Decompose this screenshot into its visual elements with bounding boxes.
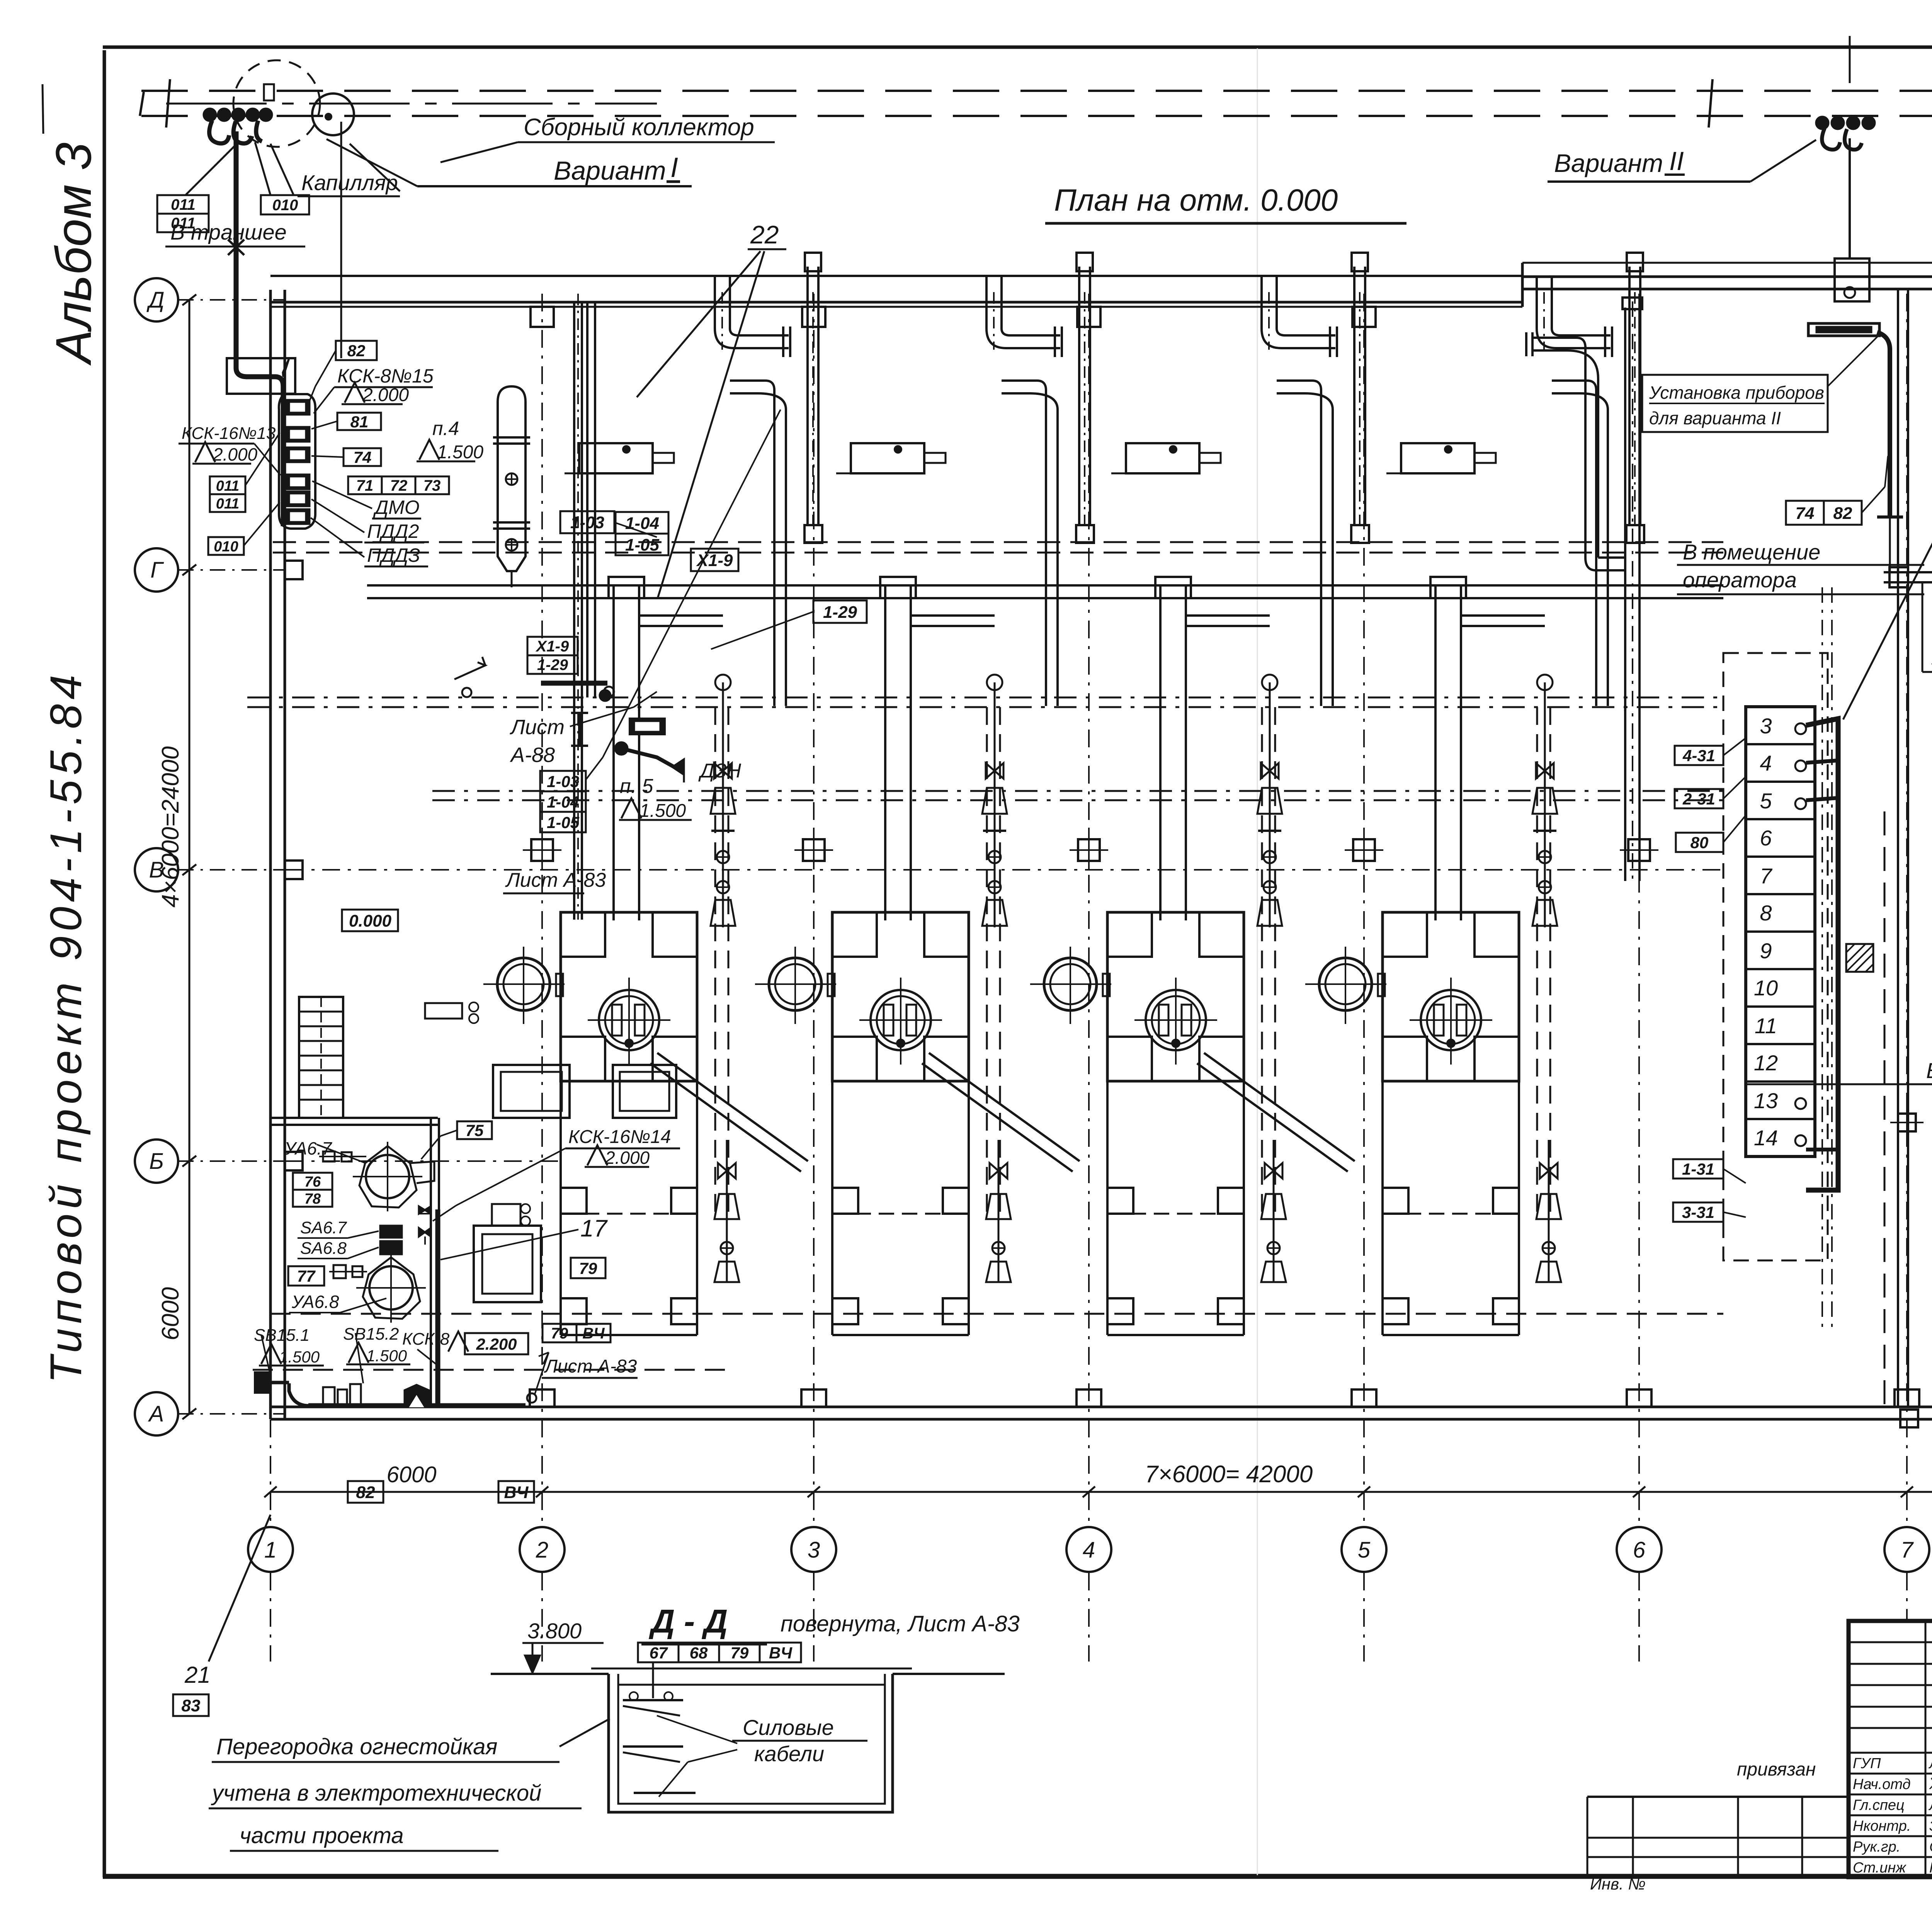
svg-text:1-04: 1-04 [547,793,579,811]
svg-text:3.800: 3.800 [527,1619,582,1643]
svg-text:74: 74 [1796,504,1815,523]
collector thin drop [340,122,342,358]
tall vessel [498,386,526,571]
svg-text:78: 78 [304,1191,321,1207]
arrow up-left p5 [454,657,485,679]
stairs annex [1922,582,1923,672]
sheet border left [103,50,106,1877]
svg-text:Лист: Лист [510,716,565,739]
svg-text:3: 3 [1760,714,1772,738]
row axis circle Г [135,548,178,592]
label boxes X1-9 1-29 [527,637,578,655]
label box 0.000 [342,910,398,931]
trench X mark [228,240,244,255]
tb sig hline [1849,1773,1932,1775]
label box 010 [208,537,244,555]
row axis circle Б [135,1139,178,1183]
arrow 3.800 dd [532,1643,534,1673]
svg-text:КСК-16№14: КСК-16№14 [568,1127,671,1147]
tb grid hline [1849,1684,1932,1686]
svg-text:74: 74 [354,448,372,466]
label box 010 top [261,195,309,214]
column axis line 5 [1363,294,1365,1526]
leader sborny [440,142,518,162]
collector center line [166,103,657,105]
svg-text:КСК-8№15: КСК-8№15 [337,365,434,387]
svg-text:Д - Д: Д - Д [648,1603,728,1640]
svg-text:Сборный коллектор: Сборный коллектор [524,114,754,141]
column axis circle 3 [791,1527,836,1572]
DD hook 1 [623,1699,683,1701]
variant2 black bar [1808,323,1879,336]
variant1 instrument circle [312,94,354,135]
bottom wall pilaster [530,1389,554,1407]
leader ksk815 [314,387,334,413]
svg-text:для варианта II: для варианта II [1649,408,1781,428]
leader 011 boxes [185,141,240,195]
label box 74 a [344,448,381,466]
left dim tick Б [182,1156,196,1167]
column axis line 7 [1906,294,1908,1526]
bay0 pipe pair [573,302,575,920]
row axis line В long [286,869,1723,871]
row axis line А [178,1413,286,1415]
label box 80 [1676,833,1723,852]
svg-text:1-05: 1-05 [625,536,660,554]
tb sig vline [1925,1753,1927,1877]
collector dashed line 2 [141,115,1932,117]
bottom wall pilaster [1352,1389,1376,1407]
svg-text:1.500: 1.500 [279,1348,320,1366]
leader list a88 [570,707,634,726]
stair [299,997,343,1118]
label 2.200 [448,1332,468,1352]
label 2.000 b [195,442,215,462]
svg-text:9: 9 [1760,939,1772,963]
tb sig hline [1849,1835,1932,1837]
leader dmo [312,481,372,509]
compressor unit 1 assembly [623,446,630,453]
black device p5 [630,719,665,734]
svg-text:Перегородка огнестойкая: Перегородка огнестойкая [216,1734,498,1759]
bottom dim tick [264,1486,277,1497]
lower dashed line a [270,1313,1723,1315]
compressor unit 2 assembly [895,446,901,453]
row axis circle Д [135,278,178,321]
left wall pilaster [285,861,303,879]
leader ua67 [317,1145,366,1163]
leader ksk16 [254,444,281,475]
tb grid hline [1849,1752,1932,1754]
col6 riser [1624,308,1626,881]
svg-text:68: 68 [690,1644,708,1662]
row axis line Б [178,1160,286,1162]
svg-text:ГУП: ГУП [1853,1755,1881,1772]
label box 1-29 [813,600,867,623]
svg-text:Х1-9: Х1-9 [536,638,569,655]
row axis line Г [178,569,286,571]
svg-text:73: 73 [423,477,441,494]
svg-text:Д: Д [146,287,165,313]
svg-text:82: 82 [347,342,366,360]
svg-text:4×6000=24000: 4×6000=24000 [157,746,184,907]
edge mark top-left [43,84,43,134]
svg-text:1-29: 1-29 [823,603,857,622]
column junction box [531,839,553,861]
column axis line 4 [1088,294,1090,1526]
panel dashed box [1723,653,1828,1260]
svg-text:4: 4 [1760,751,1772,775]
svg-text:14: 14 [1754,1126,1778,1150]
svg-text:Х1-9: Х1-9 [696,551,733,570]
label box 82 a [336,341,377,360]
svg-text:76: 76 [304,1174,321,1190]
column axis circle 6 [1617,1527,1662,1572]
variant2 heavy drop [1877,332,1890,517]
variant1 cable bundle dots [204,109,216,121]
svg-text:Б: Б [149,1149,164,1174]
leader stack 103 [586,757,603,780]
svg-text:1-29: 1-29 [537,656,568,673]
column axis line 6 [1638,294,1640,1526]
apparatus square B [493,1065,570,1118]
svg-text:2.000: 2.000 [605,1148,650,1168]
svg-text:Ст.инж: Ст.инж [1853,1860,1906,1876]
instrument stack outline [279,394,315,529]
svg-text:Рук.гр.: Рук.гр. [1853,1839,1900,1855]
row axis line Д [178,299,286,301]
bottom dim tick [536,1486,548,1497]
heavy dots p5 [615,742,628,755]
upper dashed band [273,541,1723,543]
collector tick mid [1709,79,1713,128]
label 1500 p5 [621,798,641,818]
bottom dim tick [1358,1486,1370,1497]
leader 010 [244,502,280,546]
column axis line 1 [270,294,271,1526]
lower dashed band [432,790,1723,792]
tb grid hline [1849,1706,1932,1708]
apparatus square A [474,1226,541,1302]
label box 83 [173,1694,209,1716]
valve sym p5 [672,759,684,775]
svg-text:11: 11 [1755,1014,1777,1038]
svg-text:5: 5 [1358,1537,1371,1563]
svg-text:10: 10 [1754,976,1778,1000]
svg-text:Нконтр.: Нконтр. [1853,1818,1911,1834]
svg-text:I: I [670,152,678,183]
svg-text:Вариант: Вариант [1554,149,1663,177]
cable device black [405,1385,429,1406]
svg-text:КСК-8: КСК-8 [402,1330,450,1349]
leader ua68 [340,1298,386,1313]
apparatus square C [613,1065,676,1118]
svg-text:67: 67 [650,1644,668,1662]
svg-text:22: 22 [750,220,779,249]
label 22 leaders [637,251,760,397]
svg-text:ВЧ: ВЧ [769,1644,793,1662]
boxes 67 68 79 BЧ [638,1643,679,1662]
svg-text:кабели: кабели [754,1742,824,1766]
collector dashed line 1 [141,90,1932,92]
label box 79 [571,1258,605,1278]
DD hook 3 [634,1792,696,1794]
label 2000 c [587,1145,607,1165]
svg-text:Седых: Седых [1929,1839,1932,1855]
leader sb152 [355,1333,363,1383]
row axis circle А [135,1392,178,1435]
svg-text:7: 7 [1760,864,1772,888]
label box 1-31 [1673,1159,1723,1179]
svg-text:п. 5: п. 5 [620,775,654,798]
hatched shaft [1846,944,1873,972]
big leader diagonal [1843,415,1932,719]
svg-text:В помещение: В помещение [1683,540,1820,564]
svg-text:части проекта: части проекта [240,1823,404,1848]
left dim tick В [182,864,196,875]
leader ksk1614 [456,1148,565,1206]
svg-text:13: 13 [1754,1088,1778,1113]
label boxes 1-04 1-05 [616,512,668,534]
panel strip cells 3-14 [1746,707,1815,1156]
label boxes 79 ВЧ [543,1324,577,1342]
top wall step [1521,263,1524,307]
cable fittings chain [289,1383,308,1406]
svg-text:II: II [1669,146,1684,176]
leader ksk8b [417,1349,436,1364]
svg-text:повернута, Лист А-83: повернута, Лист А-83 [781,1611,1020,1636]
apparatus small top [492,1204,520,1226]
row axis line В [178,869,286,871]
label boxes 011 top [157,195,209,214]
cable channel lines [1821,587,1823,1329]
leader 1-03 [614,522,657,537]
left wall pilaster [285,1152,303,1170]
svg-text:2: 2 [536,1537,548,1563]
label box 75 [457,1121,492,1139]
pump room valve black 1 [419,1206,431,1214]
DD trench [609,1674,893,1812]
label boxes 1-03 1-04 1-05 [540,771,586,791]
svg-text:6000: 6000 [386,1462,436,1487]
top wall main hall [270,275,1522,277]
svg-text:6: 6 [1760,826,1772,850]
tb sig hline [1849,1856,1932,1858]
bottom wall pilaster [1895,1389,1919,1407]
left dim tick А [182,1408,196,1419]
leader 4-31 [1723,738,1746,755]
leader 82a [315,350,336,386]
svg-text:0.000: 0.000 [349,912,392,930]
pipe rack band [367,584,1723,587]
svg-text:1-03: 1-03 [547,772,579,791]
corridor walls [1897,289,1899,1407]
svg-text:УА6.8: УА6.8 [291,1292,339,1312]
leader sb151 [261,1335,270,1376]
svg-text:В канале: В канале [1926,1058,1932,1083]
column axis circle 5 [1342,1527,1386,1572]
pump room right wall [430,1118,432,1407]
svg-text:Типовой проект 904-1-55.84: Типовой проект 904-1-55.84 [41,670,91,1383]
svg-text:Лист А-83: Лист А-83 [505,869,606,891]
svg-text:Лист А-83: Лист А-83 [544,1356,637,1377]
pump room black module 2 [380,1241,402,1254]
leader 81 [311,421,337,429]
left dim tick Г [182,565,196,575]
leader silovye 2 [688,1750,737,1762]
bottom wall pilaster [801,1389,826,1407]
leader 010 box [270,144,294,195]
tb grid hline [1849,1727,1932,1729]
svg-text:План на отм. 0.000: План на отм. 0.000 [1054,183,1338,217]
svg-text:72: 72 [390,477,408,494]
svg-text:3: 3 [808,1537,820,1563]
column axis circle 1 [248,1527,293,1572]
top wall pilaster [1077,307,1100,327]
column axis circle 4 [1066,1527,1111,1572]
svg-text:011: 011 [216,496,240,512]
pump room black module 1 [380,1226,402,1238]
svg-text:оператора: оператора [1683,568,1797,592]
variant1 detail dashed circle [233,60,320,147]
row axis circle В [135,848,178,891]
svg-text:7×6000= 42000: 7×6000= 42000 [1145,1461,1313,1488]
svg-text:Повупонько: Повупонько [1929,1860,1932,1876]
svg-text:1.500: 1.500 [639,801,686,821]
svg-text:ДЗН: ДЗН [698,760,742,782]
left wall [269,290,272,1419]
leader 80 [1723,815,1746,842]
svg-text:Инв. №: Инв. № [1590,1875,1646,1893]
leader 011 [245,433,280,485]
compressor unit 3 assembly [1170,446,1177,453]
leader silovye 1 [657,1716,737,1743]
collector end tick left [166,79,170,128]
svg-text:ДМО: ДМО [373,497,420,518]
bottom wall pilaster [1077,1389,1101,1407]
svg-text:4: 4 [1083,1537,1095,1563]
variant2 top line [1849,36,1851,83]
svg-text:SА6.7: SА6.7 [300,1218,347,1237]
leader 74a [311,456,344,457]
svg-text:3-31: 3-31 [1682,1203,1714,1221]
top wall pilaster [802,307,825,327]
column axis line 2 [541,294,543,1526]
heavy junction p5 [541,681,607,686]
svg-text:А-88: А-88 [510,743,555,767]
svg-text:КСК-16№13: КСК-16№13 [182,424,276,443]
box ustanovka [1642,375,1828,432]
cable end circle [527,1393,536,1403]
heavy cable panel [1806,719,1838,1190]
svg-text:81: 81 [350,413,369,431]
DD cover [618,1684,885,1686]
svg-text:6: 6 [1633,1537,1646,1563]
top wall pilaster [531,307,554,327]
leader peregorodka [560,1719,610,1747]
leader sa [348,1231,379,1238]
bottom wall [270,1406,1932,1408]
svg-text:011: 011 [171,196,196,213]
top wall pilaster [1352,307,1376,327]
tb left table [1587,1796,1849,1798]
tb sig hline [1849,1815,1932,1816]
tb grid hline [1849,1641,1932,1643]
svg-text:2.200: 2.200 [476,1335,517,1353]
column junction box [1628,839,1650,861]
svg-text:Вариант: Вариант [554,156,666,185]
svg-text:6000: 6000 [157,1287,184,1340]
left dimension line [189,300,190,1414]
column axis line 3 [813,294,815,1526]
fold line vertical [1257,48,1258,1875]
svg-text:8: 8 [1760,901,1772,925]
variant2 cable dots [1816,117,1828,129]
label boxes 011 011 [210,476,245,494]
bottom dim box ВЧ [498,1481,534,1503]
DD cable drop [652,1662,654,1698]
bottom wall pilaster [1627,1389,1651,1407]
svg-text:Установка приборов: Установка приборов [1649,383,1824,403]
variant2 wall box [1835,259,1869,301]
leader 74 82 annex [1862,487,1885,513]
svg-text:ВЧ: ВЧ [504,1483,529,1502]
left dim tick Д [182,294,196,305]
operator room wall [1884,571,1932,573]
pump 2 [369,1266,413,1310]
annex long dash line [1884,811,1886,1406]
svg-text:Альбом 3: Альбом 3 [45,143,102,366]
label boxes 74 82 annex [1786,501,1824,525]
middle dashed band [247,697,1723,699]
corridor junction squares [1898,1114,1916,1131]
bottom dim tick [1633,1486,1645,1497]
column axis circle 2 [520,1527,565,1572]
svg-text:71: 71 [356,477,374,494]
svg-text:2-31: 2-31 [1682,790,1715,808]
DD ground line [491,1673,609,1675]
leader variant2 [1750,140,1816,182]
svg-text:ПДД2: ПДД2 [367,520,419,542]
collector drop cable [234,131,239,368]
label box 2-31 [1675,789,1723,808]
leader 2-31 [1723,777,1746,799]
leader kapillyar 1 [350,144,400,191]
column junction box [803,839,825,861]
svg-text:79: 79 [579,1259,597,1277]
svg-text:77: 77 [297,1267,316,1285]
label boxes 76 78 [293,1173,332,1190]
svg-text:ВЧ: ВЧ [582,1325,605,1342]
svg-text:Золотарева: Золотарева [1929,1818,1932,1834]
svg-text:1-03: 1-03 [570,513,604,532]
column axis circle 7 [1884,1527,1929,1572]
heavy cable room vertical [435,1209,440,1406]
lower dashed line b [253,1369,734,1371]
row axis line Б long [286,1160,560,1162]
leader 3-31 [1723,1212,1746,1217]
leader pdd2 [311,499,364,532]
label boxes 71 72 73 [348,476,382,494]
svg-text:83: 83 [182,1696,201,1715]
svg-text:010: 010 [272,197,298,214]
svg-text:1-04: 1-04 [625,514,659,533]
svg-text:учтена в электротехнической: учтена в электротехнической [211,1781,541,1806]
DD hook 2 [623,1745,683,1748]
svg-text:82: 82 [1833,504,1852,523]
leader 1-31 [1723,1169,1746,1183]
label box 1-03 [560,511,614,533]
